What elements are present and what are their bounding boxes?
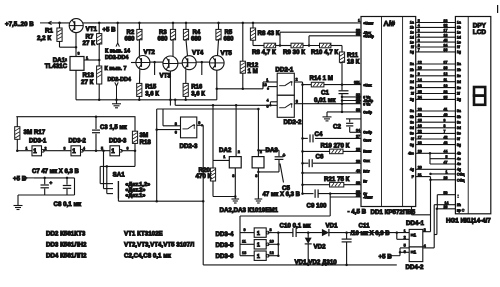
- svg-text:4b: 4b: [457, 152, 461, 156]
- svg-text:17: 17: [418, 135, 422, 139]
- svg-text:34: 34: [444, 43, 448, 47]
- svg-text:VT5: VT5: [221, 50, 233, 57]
- svg-text:41: 41: [444, 107, 448, 111]
- svg-text:4: 4: [418, 24, 420, 28]
- svg-text:DD2-3: DD2-3: [180, 143, 198, 150]
- svg-text:VT2,VT3,VT4,VT5 3107Л: VT2,VT3,VT4,VT5 3107Л: [124, 242, 194, 249]
- svg-text:«Uобр: «Uобр: [363, 35, 374, 39]
- svg-text:8: 8: [270, 228, 272, 232]
- svg-text:680: 680: [224, 36, 235, 42]
- svg-text:38: 38: [356, 32, 360, 36]
- svg-text:C1: C1: [321, 90, 329, 97]
- svg-text:DD3-5: DD3-5: [216, 242, 234, 249]
- svg-text:36: 36: [444, 48, 448, 52]
- svg-text:33: 33: [444, 19, 448, 23]
- svg-text:9: 9: [198, 121, 200, 125]
- svg-text:40: 40: [356, 169, 360, 173]
- svg-text:6: 6: [127, 146, 129, 150]
- svg-text:2h: 2h: [457, 203, 461, 207]
- svg-text:1 М: 1 М: [248, 68, 258, 75]
- svg-text:2g: 2g: [410, 98, 414, 102]
- svg-text:1: 1: [223, 155, 225, 159]
- svg-text:C8 0,1 мк: C8 0,1 мк: [54, 201, 83, 208]
- svg-text:35: 35: [444, 96, 448, 100]
- svg-text:11: 11: [444, 78, 448, 82]
- svg-text:R15: R15: [145, 84, 157, 90]
- svg-text:VT1: VT1: [86, 26, 98, 33]
- svg-text:45: 45: [444, 38, 448, 42]
- svg-text:3e: 3e: [457, 132, 461, 136]
- svg-text:3,6 К: 3,6 К: [145, 92, 159, 98]
- svg-text:8: 8: [444, 124, 446, 128]
- svg-text:3: 3: [78, 52, 80, 56]
- svg-text:1g: 1g: [410, 50, 414, 54]
- svg-text:39: 39: [356, 181, 360, 185]
- svg-text:4g: 4g: [457, 168, 461, 172]
- svg-text:DD3 К561ЛН2: DD3 К561ЛН2: [46, 242, 87, 249]
- svg-text:18: 18: [444, 34, 448, 38]
- svg-text:12: 12: [418, 60, 422, 64]
- svg-text:+7,5..20 В: +7,5..20 В: [5, 21, 34, 28]
- svg-text:RCг: RCг: [363, 169, 370, 173]
- svg-text:5: 5: [446, 155, 448, 159]
- svg-text:2e: 2e: [457, 86, 461, 90]
- svg-text:9: 9: [444, 119, 446, 123]
- svg-text:38: 38: [444, 90, 448, 94]
- svg-text:R8 4,7 К: R8 4,7 К: [252, 49, 276, 56]
- svg-text:SA1: SA1: [113, 171, 126, 178]
- svg-text:C4: C4: [315, 131, 323, 138]
- svg-text:R14 1 М: R14 1 М: [310, 75, 333, 82]
- svg-text:4: 4: [267, 99, 269, 103]
- svg-text:29: 29: [356, 160, 360, 164]
- svg-text:5: 5: [404, 243, 406, 247]
- svg-text:C11: C11: [359, 222, 371, 229]
- svg-text:1f: 1f: [457, 45, 460, 49]
- svg-text:50: 50: [444, 191, 448, 195]
- svg-text:R21 75 К: R21 75 К: [324, 176, 350, 183]
- svg-text:DD2-2: DD2-2: [284, 119, 302, 126]
- svg-text:15: 15: [418, 119, 422, 123]
- svg-text:«Uпит: «Uпит: [363, 21, 373, 25]
- svg-text:4g: 4g: [410, 168, 414, 172]
- svg-text:14: 14: [418, 78, 422, 82]
- svg-text:3,6 К: 3,6 К: [191, 92, 205, 98]
- svg-text:3: 3: [232, 174, 234, 178]
- svg-text:3М R17: 3М R17: [24, 129, 46, 136]
- svg-text:13: 13: [418, 84, 422, 88]
- svg-text:R9 30 К: R9 30 К: [283, 49, 305, 56]
- svg-text:36: 36: [356, 100, 360, 104]
- svg-text:пр C: пр C: [457, 209, 465, 213]
- svg-text:4: 4: [424, 244, 426, 248]
- svg-text:К выв. 7: К выв. 7: [105, 66, 127, 72]
- svg-text:2,2 К: 2,2 К: [37, 35, 51, 42]
- svg-text:1b: 1b: [457, 26, 461, 30]
- svg-text:/10 мк Х 6,3 В: /10 мк Х 6,3 В: [351, 231, 391, 237]
- svg-text:DD3-1: DD3-1: [29, 139, 47, 145]
- svg-text:R2: R2: [127, 30, 135, 36]
- svg-text:R19 270 К: R19 270 К: [321, 143, 350, 150]
- svg-text:26: 26: [444, 176, 448, 180]
- svg-text:Свх: Свх: [363, 159, 370, 163]
- svg-text:R18: R18: [140, 139, 152, 146]
- svg-text:3f: 3f: [411, 137, 414, 141]
- svg-text:Свет: Свет: [363, 139, 371, 143]
- svg-text:TL431C: TL431C: [45, 63, 68, 70]
- svg-text:8: 8: [175, 122, 177, 126]
- svg-text:1: 1: [111, 148, 115, 155]
- svg-text:2a: 2a: [457, 62, 461, 66]
- svg-text:1d: 1d: [410, 35, 414, 39]
- svg-text:5: 5: [418, 19, 420, 23]
- svg-text:21: 21: [418, 173, 422, 177]
- svg-text:2f: 2f: [457, 92, 460, 96]
- svg-text:11: 11: [242, 240, 246, 244]
- svg-text:34: 34: [356, 129, 360, 133]
- svg-text:20: 20: [418, 166, 422, 170]
- svg-text:2f: 2f: [411, 92, 414, 96]
- svg-text:32: 32: [444, 24, 448, 28]
- svg-text:DD2-1: DD2-1: [275, 67, 293, 74]
- svg-text:2d: 2d: [410, 80, 414, 84]
- svg-text:470 К: 470 К: [196, 173, 212, 180]
- svg-text:2: 2: [45, 146, 47, 150]
- svg-text:0,01 мк: 0,01 мк: [314, 97, 336, 104]
- svg-text:3c: 3c: [457, 120, 461, 124]
- svg-text:1d: 1d: [457, 35, 461, 39]
- svg-text:DD1 КР572ПВ5: DD1 КР572ПВ5: [371, 209, 416, 216]
- svg-text:DD4-2: DD4-2: [406, 264, 424, 271]
- svg-text:R1: R1: [45, 28, 53, 35]
- svg-text:7: 7: [444, 130, 446, 134]
- svg-text:18 К: 18 К: [347, 59, 360, 66]
- svg-text:1: 1: [86, 56, 88, 60]
- svg-text:0 Vв: 0 Vв: [363, 103, 370, 107]
- svg-text:C5: C5: [282, 185, 290, 192]
- svg-text:DD3-6: DD3-6: [216, 253, 234, 260]
- svg-text:VT3: VT3: [160, 73, 172, 80]
- svg-text:2c: 2c: [410, 74, 414, 78]
- svg-text:1: 1: [446, 170, 448, 174]
- svg-text:=1: =1: [411, 249, 417, 254]
- svg-text:43: 43: [444, 141, 448, 145]
- svg-text:R16: R16: [191, 84, 203, 90]
- svg-text:25: 25: [418, 90, 422, 94]
- svg-text:DA2,DA3 К1019ЕМ1: DA2,DA3 К1019ЕМ1: [220, 207, 279, 214]
- svg-text:1: 1: [257, 243, 260, 249]
- svg-text:16: 16: [418, 124, 422, 128]
- svg-text:+: +: [50, 181, 53, 186]
- svg-text:10: 10: [270, 240, 274, 244]
- svg-text:3c: 3c: [410, 120, 414, 124]
- svg-text:9: 9: [418, 72, 420, 76]
- svg-text:10: 10: [444, 84, 448, 88]
- svg-text:VD2: VD2: [314, 244, 327, 251]
- svg-text:17: 17: [444, 29, 448, 33]
- svg-text:DD2-DD4: DD2-DD4: [105, 55, 128, 61]
- svg-text:42: 42: [444, 135, 448, 139]
- svg-text:1f: 1f: [411, 45, 414, 49]
- svg-text:1: 1: [266, 78, 268, 82]
- svg-text:3a: 3a: [457, 109, 461, 113]
- svg-text:2: 2: [296, 78, 298, 82]
- svg-text:47 мк Х 6,3 В: 47 мк Х 6,3 В: [263, 192, 301, 198]
- svg-text:22: 22: [418, 141, 422, 145]
- svg-text:7: 7: [418, 48, 420, 52]
- svg-text:47: 47: [444, 160, 448, 164]
- svg-text:19: 19: [418, 150, 422, 154]
- svg-text:3f: 3f: [457, 137, 460, 141]
- svg-text:VT1 КТ3102Е: VT1 КТ3102Е: [124, 231, 163, 238]
- svg-text:R10 4,7 К: R10 4,7 К: [311, 49, 338, 56]
- svg-text:C2,C4,C8 0,1 мк: C2,C4,C8 0,1 мк: [124, 253, 172, 260]
- svg-text:3: 3: [255, 174, 257, 178]
- svg-text:8: 8: [418, 38, 420, 42]
- svg-text:27: 27: [356, 135, 360, 139]
- svg-text:+5 В: +5 В: [102, 27, 116, 34]
- svg-text:18: 18: [418, 113, 422, 117]
- svg-text:9: 9: [244, 228, 246, 232]
- svg-text:23: 23: [418, 107, 422, 111]
- svg-text:- 4,5 В: - 4,5 В: [348, 209, 367, 216]
- svg-text:3a: 3a: [410, 109, 414, 113]
- svg-text:1: 1: [358, 19, 360, 23]
- svg-text:DD4 К561ЛП2: DD4 К561ЛП2: [46, 253, 87, 260]
- svg-text:Собр: Собр: [363, 131, 372, 135]
- svg-text:13: 13: [263, 83, 267, 87]
- svg-text:Общ: Общ: [457, 178, 465, 182]
- svg-text:C9 100: C9 100: [307, 203, 328, 210]
- svg-text:26: 26: [444, 205, 448, 209]
- svg-text:680: 680: [125, 36, 136, 42]
- svg-text:1e: 1e: [410, 40, 414, 44]
- svg-text:DD2-DD4: DD2-DD4: [108, 77, 131, 83]
- svg-text::: :: [458, 194, 459, 199]
- svg-text:3b: 3b: [410, 115, 414, 119]
- svg-text:3М: 3М: [140, 132, 149, 139]
- svg-text:1c: 1c: [457, 31, 461, 35]
- svg-text:DD3-4: DD3-4: [216, 231, 234, 238]
- svg-text:680: 680: [158, 36, 169, 42]
- svg-text:Rг: Rг: [363, 179, 367, 183]
- svg-text:1: 1: [72, 148, 76, 155]
- svg-text:R3: R3: [159, 30, 167, 36]
- svg-text:22: 22: [418, 130, 422, 134]
- svg-text:31: 31: [356, 81, 360, 85]
- svg-text:24: 24: [418, 96, 422, 100]
- svg-text:R8 43 К: R8 43 К: [258, 30, 280, 37]
- svg-text:1e: 1e: [457, 40, 461, 44]
- svg-text:C10 0,1 мк: C10 0,1 мк: [280, 223, 312, 230]
- svg-text:40: 40: [444, 113, 448, 117]
- svg-text:«Дат.1»: «Дат.1»: [125, 193, 145, 199]
- svg-text:1: 1: [257, 231, 260, 237]
- svg-text:1a: 1a: [457, 21, 461, 25]
- svg-text:4bc: 4bc: [408, 152, 414, 156]
- svg-text:26: 26: [356, 193, 360, 197]
- svg-text:6: 6: [175, 131, 177, 135]
- svg-text:37: 37: [444, 60, 448, 64]
- svg-text:2e: 2e: [410, 86, 414, 90]
- svg-text:1g: 1g: [457, 50, 461, 54]
- svg-text:-Uпит: -Uпит: [363, 196, 373, 200]
- svg-text:2: 2: [65, 58, 67, 62]
- svg-text:2b: 2b: [457, 68, 461, 72]
- svg-text:1: 1: [257, 254, 260, 260]
- svg-text:DD3-2: DD3-2: [69, 139, 87, 145]
- svg-text:27 К: 27 К: [81, 79, 94, 86]
- svg-text:VT2: VT2: [144, 49, 156, 56]
- svg-text:12: 12: [270, 251, 274, 255]
- svg-text:R13: R13: [83, 72, 95, 79]
- svg-text:R5: R5: [225, 30, 233, 36]
- svg-text:DD3-3: DD3-3: [109, 139, 127, 145]
- svg-text:+: +: [283, 153, 286, 159]
- svg-text:HG1 ИКЦ14-4/7: HG1 ИКЦ14-4/7: [446, 217, 491, 224]
- svg-text:680: 680: [191, 36, 202, 42]
- svg-text:3g: 3g: [410, 143, 414, 147]
- svg-text:3b: 3b: [457, 115, 461, 119]
- svg-text:4e: 4e: [457, 162, 461, 166]
- svg-text:Общ: Общ: [457, 172, 465, 176]
- svg-text:VD1: VD1: [326, 223, 339, 230]
- svg-text:1a: 1a: [410, 21, 414, 25]
- svg-text:10: 10: [418, 66, 422, 70]
- svg-text:44: 44: [444, 150, 448, 154]
- svg-text:LCD: LCD: [473, 29, 487, 36]
- svg-text:F: F: [412, 175, 414, 179]
- svg-text:Λ/#: Λ/#: [384, 19, 396, 28]
- svg-text:3: 3: [64, 146, 66, 150]
- svg-text:R4: R4: [193, 30, 201, 36]
- svg-text:12: 12: [444, 72, 448, 76]
- svg-text:3: 3: [418, 29, 420, 33]
- svg-text:Rвит: Rвит: [363, 150, 372, 154]
- svg-text:36: 36: [444, 66, 448, 70]
- svg-text:C7 47 мк Х 6,3 В: C7 47 мк Х 6,3 В: [32, 169, 79, 175]
- svg-text:3: 3: [296, 99, 298, 103]
- svg-text:1c: 1c: [410, 31, 414, 35]
- svg-text:3d: 3d: [410, 126, 414, 130]
- svg-text:2c: 2c: [457, 74, 461, 78]
- svg-text:2g: 2g: [457, 98, 461, 102]
- svg-text:DD2 К561КТ3: DD2 К561КТ3: [46, 231, 86, 238]
- svg-text:К выв. 14: К выв. 14: [105, 49, 130, 55]
- svg-text:1: 1: [26, 146, 28, 150]
- svg-text:27 К: 27 К: [83, 40, 96, 47]
- svg-text:Собр: Собр: [363, 111, 372, 115]
- svg-text:2b: 2b: [410, 68, 414, 72]
- svg-text:4c: 4c: [457, 157, 461, 161]
- svg-text:C2: C2: [333, 124, 341, 131]
- svg-text:=1: =1: [411, 233, 417, 238]
- svg-text:13: 13: [242, 251, 246, 255]
- svg-text:2: 2: [238, 150, 240, 154]
- svg-text:2a: 2a: [410, 62, 414, 66]
- svg-text:DA2: DA2: [219, 147, 232, 154]
- svg-text:DD4-1: DD4-1: [406, 220, 424, 227]
- svg-text:C6: C6: [316, 154, 324, 161]
- svg-text:C3 1,5 мк: C3 1,5 мк: [100, 125, 127, 131]
- svg-text:1: 1: [33, 148, 37, 155]
- svg-text:6: 6: [418, 43, 420, 47]
- svg-text:VT4: VT4: [192, 50, 204, 57]
- svg-text:«Uвх: «Uвх: [363, 83, 371, 87]
- svg-text:2d: 2d: [457, 80, 461, 84]
- svg-text:1b: 1b: [410, 26, 414, 30]
- svg-text:28: 28: [356, 148, 360, 152]
- svg-text:33: 33: [356, 108, 360, 112]
- svg-text:3g: 3g: [457, 143, 461, 147]
- svg-text:5: 5: [101, 146, 103, 150]
- svg-text:3d: 3d: [457, 126, 461, 130]
- svg-text:1: 1: [404, 229, 406, 233]
- svg-text:2: 2: [418, 34, 420, 38]
- svg-text:3e: 3e: [410, 132, 414, 136]
- svg-text:4: 4: [83, 146, 85, 150]
